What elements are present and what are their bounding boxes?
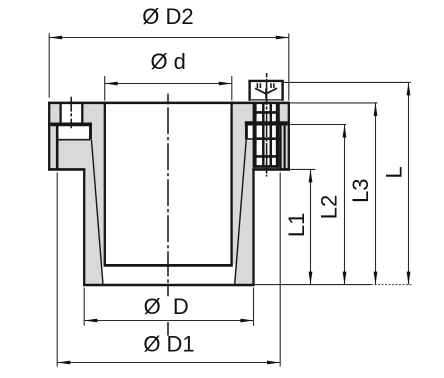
dim L2 ext (290, 124, 346, 126)
pocket right inner wall (245, 123, 248, 139)
dim Ød line (105, 83, 232, 85)
screw head wall left (248, 81, 250, 101)
slit line right (284, 122, 286, 170)
taper slant right (235, 140, 247, 285)
svg-text:Ø d: Ø d (150, 49, 185, 74)
thread end rung (254, 165, 279, 168)
screw axis (266, 73, 268, 177)
svg-text:Ø D2: Ø D2 (142, 4, 193, 29)
dim L3 line (375, 103, 377, 285)
dim ØD2 line (49, 37, 289, 39)
bottom face (83, 284, 255, 287)
top face (48, 102, 290, 105)
flange underside right (252, 168, 290, 171)
taper slant left (92, 140, 104, 285)
pocket left white (56, 125, 92, 141)
svg-text:L: L (381, 166, 406, 178)
screw minor left (262, 103, 265, 167)
hole left wall a (59, 103, 61, 123)
dim Ød ext left (104, 76, 106, 101)
svg-text:Ø D1: Ø D1 (143, 331, 194, 356)
screw head top (248, 80, 283, 82)
dim L line (408, 82, 410, 284)
body wall right (252, 169, 254, 285)
dim ØD1 ext left (56, 173, 58, 367)
pocket left bottom (57, 139, 90, 141)
screw head wall right (281, 81, 283, 101)
svg-text:L2: L2 (317, 195, 342, 219)
body wall left (83, 169, 85, 285)
screw thread OD right (276, 102, 280, 168)
socket funnel (255, 88, 277, 94)
svg-text:Ø D: Ø D (144, 294, 189, 319)
pocket right outer wall (280, 125, 282, 169)
bore wall right (230, 102, 232, 266)
bushing body section right (hatch fill) (231, 102, 291, 287)
thread rungs (254, 112, 279, 156)
dim L ext (screw head top) (284, 81, 411, 83)
dim L2 line (344, 125, 346, 285)
pocket right white (245, 125, 282, 141)
dim L1 ext (290, 168, 315, 170)
screw thread OD left (253, 102, 257, 168)
dim ØD2 ext right (288, 33, 290, 100)
dim ØD2 ext left (48, 33, 50, 98)
dim L1 line (310, 169, 312, 284)
dim ØD ext left (83, 288, 85, 326)
step line right (245, 121, 288, 125)
dim ØD1 line (57, 362, 280, 364)
flange right edge (288, 102, 290, 170)
flange underside left (48, 168, 85, 171)
flange left edge (48, 102, 50, 170)
pocket left outer wall (56, 125, 59, 169)
bushing body section left (hatch fill) (48, 102, 106, 287)
dim ØD ext right (253, 288, 255, 326)
centerline part axis (167, 94, 169, 336)
dim ØD line (84, 320, 253, 322)
screw head underside (251, 99, 281, 101)
dim L3 ext (290, 102, 377, 104)
dim ØD1 ext right (279, 173, 281, 367)
hole right white (254, 102, 280, 169)
pocket right bottom (246, 138, 280, 140)
bore wall left (104, 102, 106, 266)
internal shoulder (104, 264, 233, 267)
socket hatch ticks (257, 83, 274, 88)
step line left (50, 123, 92, 127)
screw minor right (270, 103, 273, 167)
hole left axis (70, 97, 72, 129)
hole left white (59, 102, 83, 124)
svg-text:L3: L3 (348, 178, 373, 202)
dim Ød ext right (231, 76, 233, 101)
hole left wall b (81, 103, 83, 123)
pocket left inner wall (89, 125, 92, 140)
baseline ext bottom right (255, 284, 371, 286)
svg-text:L1: L1 (284, 213, 309, 237)
